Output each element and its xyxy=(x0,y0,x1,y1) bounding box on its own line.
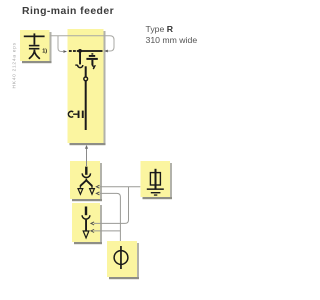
three-position switch upper: cup xyxy=(82,173,90,177)
CT ring xyxy=(114,251,128,265)
ring loop left drop wire xyxy=(58,36,63,52)
busbar dash 1 xyxy=(69,50,72,52)
CT module box F xyxy=(107,241,139,279)
capacitive indicator plate 2 xyxy=(82,111,84,118)
busbar solid xyxy=(77,50,103,52)
hollow arrow down right xyxy=(90,189,95,195)
feeder module box B xyxy=(68,29,106,145)
junction dot xyxy=(78,49,82,53)
fork stub left xyxy=(80,185,81,188)
cup contact xyxy=(78,65,83,68)
earthing switch dot xyxy=(91,53,93,55)
arrowhead up xyxy=(85,145,88,149)
three-position switch lower: stem xyxy=(85,220,87,232)
three-position switch upper: top bold line xyxy=(85,167,87,175)
fuse body xyxy=(150,173,160,185)
cup contact tick xyxy=(75,64,77,65)
busbar dash 2 xyxy=(73,50,76,52)
fuse stem top xyxy=(155,169,157,174)
fuse centre line xyxy=(155,173,157,185)
arrow wire up from box C to box B xyxy=(86,149,88,162)
svg-text:1): 1) xyxy=(42,49,47,55)
CT conductor xyxy=(120,246,122,269)
stem through busbar A xyxy=(34,33,36,44)
wire E upper riser to W1 xyxy=(94,187,129,224)
switch module box C xyxy=(70,161,102,201)
three-position switch lower: top bold line xyxy=(85,207,87,216)
hollow arrow down left xyxy=(78,189,83,195)
module box A (busbar earthing switch option) xyxy=(20,30,52,63)
isolating circle xyxy=(84,77,88,81)
contact plate upper A xyxy=(29,45,40,47)
ring loop wire xyxy=(50,36,114,51)
main cable line xyxy=(85,66,87,130)
arrow right into busbar left end xyxy=(63,50,67,53)
wire E lower to CT riser xyxy=(94,230,120,232)
hollow arrow down xyxy=(83,231,89,238)
earth bar 2 xyxy=(151,192,161,193)
earthing switch stem xyxy=(91,60,93,65)
wire C lower down to CT xyxy=(100,193,121,241)
fork legs A xyxy=(29,51,39,59)
arrowhead at C lower xyxy=(96,192,99,195)
three-position switch upper: fork xyxy=(80,180,92,186)
contact plate lower A xyxy=(29,48,40,50)
stub below plates A xyxy=(34,50,36,52)
capacitive indicator arc xyxy=(68,111,73,117)
capacitive indicator link xyxy=(73,114,78,115)
three-position switch lower: cup xyxy=(82,215,90,219)
earth bar 1 xyxy=(147,188,164,190)
earthing switch bar small xyxy=(89,55,95,57)
fork stub right xyxy=(91,185,92,188)
arrow left into busbar right end xyxy=(104,50,108,53)
arrowhead at E lower xyxy=(91,229,94,232)
earth bar 3 xyxy=(154,194,157,195)
fuse stem bottom xyxy=(155,185,157,189)
earthing switch hook xyxy=(92,64,94,69)
drop from junction xyxy=(79,52,81,64)
wire C upper to fuse box D xyxy=(100,186,141,188)
svg-text:Ring-main feeder: Ring-main feeder xyxy=(22,6,114,17)
arrowhead at C upper xyxy=(96,185,99,188)
three-position switch upper: entry stub xyxy=(86,161,87,166)
busbar bar in box A xyxy=(24,36,45,38)
arrowhead at E upper xyxy=(91,222,94,225)
svg-text:HK40 2124a eps: HK40 2124a eps xyxy=(11,42,17,88)
earthing switch bar wide xyxy=(86,58,97,60)
svg-text:Type R: Type R xyxy=(146,24,174,34)
three-position switch upper: stem xyxy=(86,179,88,182)
fuse module box D xyxy=(141,161,173,199)
capacitive indicator plate 1 xyxy=(78,111,80,118)
svg-text:310 mm wide: 310 mm wide xyxy=(146,35,198,45)
switch module box E xyxy=(72,203,102,244)
